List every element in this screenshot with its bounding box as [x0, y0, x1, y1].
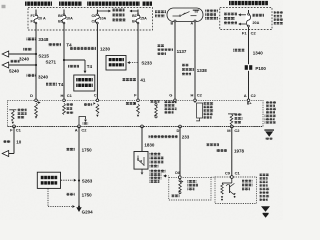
svg-text:5240: 5240 — [9, 68, 20, 73]
text inside right box — [224, 13, 237, 25]
svg-text:T4: T4 — [66, 43, 72, 48]
text right of right box — [274, 11, 283, 24]
wire from fuse C6 down to pin C — [96, 10, 98, 101]
switch blade detail — [173, 10, 200, 17]
svg-text:1338: 1338 — [197, 68, 208, 73]
svg-text:3240: 3240 — [38, 75, 49, 80]
wire 233 — [179, 127, 181, 178]
resistor box below H C2 — [195, 102, 203, 121]
svg-text:D: D — [30, 93, 33, 98]
left continuation arrow — [163, 174, 169, 177]
pin D8 — [175, 171, 181, 179]
svg-text:1830: 1830 — [144, 143, 155, 148]
transistor Q1 — [221, 183, 236, 200]
svg-text:C2: C2 — [251, 93, 257, 98]
wire from roof fuse down to pin A C2 — [248, 10, 250, 100]
svg-text:1340: 1340 — [253, 50, 264, 55]
svg-text:B+: B+ — [247, 102, 252, 106]
scan speck top-left — [2, 5, 6, 8]
arrow to left text upper — [238, 13, 246, 16]
dimmer element below D — [35, 101, 41, 118]
wire 1750 — [78, 126, 80, 207]
pin label C9 C1 — [225, 171, 241, 176]
fuse B1 labels — [132, 14, 147, 23]
upper arrow labels — [19, 48, 32, 62]
arrow to left text lower — [238, 23, 246, 26]
svg-text:D: D — [177, 128, 180, 133]
top-right distribution box outline — [220, 8, 272, 30]
wire 233 label — [149, 135, 190, 140]
wire 1978 label — [206, 143, 245, 153]
svg-text:1750: 1750 — [82, 147, 93, 152]
junction of lower arrow — [35, 64, 37, 66]
ground G204 — [76, 207, 93, 214]
dashed link to splice S233 — [127, 61, 152, 66]
pin M C2 bottom — [227, 125, 240, 133]
pin C top — [94, 93, 99, 102]
arrow below switch box — [141, 169, 144, 175]
pin F C1 bottom — [10, 125, 22, 132]
svg-text:20 A: 20 A — [38, 17, 46, 21]
wire 3348 label — [27, 37, 49, 42]
svg-text:C1: C1 — [235, 171, 241, 176]
pin H C1 top — [61, 93, 73, 102]
text block sensor signal — [204, 102, 214, 119]
label: small title — [142, 2, 152, 6]
dashed link box to ground — [48, 188, 75, 208]
svg-text:S233: S233 — [141, 61, 152, 66]
svg-text:G204: G204 — [82, 209, 94, 214]
label: engine fuse block title — [25, 2, 52, 6]
pin F top — [134, 93, 139, 102]
junction C9 C1 — [230, 176, 233, 179]
sensor element in bottom box — [179, 180, 184, 194]
wire 1750 upper label — [66, 147, 92, 152]
svg-text:C2: C2 — [234, 128, 240, 133]
wire 41 label — [122, 78, 146, 83]
ground triangle bottom right — [261, 206, 270, 218]
svg-text:B6: B6 — [58, 14, 63, 18]
wire 1830 label — [144, 143, 155, 148]
svg-text:S271: S271 — [45, 60, 56, 65]
switch pin B — [171, 20, 176, 25]
wire T4 upper label — [48, 43, 72, 48]
pin label A C2 right — [244, 93, 257, 98]
text bottom box lower — [171, 194, 180, 197]
lamp element far left — [9, 110, 16, 124]
fuse C6 labels — [91, 14, 106, 23]
element below F — [125, 102, 139, 117]
arrow from fuse C6 to junction text — [97, 10, 111, 13]
junction box T4 (solid) — [74, 75, 95, 91]
loop at pin A C2 bottom — [79, 117, 88, 126]
text for element M — [234, 113, 242, 123]
diode element — [221, 183, 223, 198]
dash continuation between bottom boxes — [211, 176, 215, 178]
wire from fuse F1 down to pin D — [35, 10, 37, 101]
svg-text:41: 41 — [140, 78, 146, 83]
label: instrument fuse block title — [59, 2, 82, 6]
wire 10 label — [3, 140, 22, 145]
svg-text:F1: F1 — [30, 14, 34, 18]
text left of switch — [155, 10, 166, 17]
fuse F1 20A — [33, 14, 39, 24]
off-page arrow bottom left — [2, 151, 9, 157]
svg-text:H: H — [191, 92, 194, 97]
svg-text:P100: P100 — [255, 66, 266, 71]
svg-text:A: A — [191, 21, 194, 25]
svg-text:T4: T4 — [87, 64, 93, 69]
wire into transistors — [222, 178, 232, 183]
theft deterrent switch box — [134, 152, 148, 170]
text for lamp element — [18, 109, 27, 119]
svg-text:C1: C1 — [16, 127, 22, 132]
fuse F1 labels — [30, 14, 46, 23]
branch labels — [68, 64, 93, 69]
svg-text:F1: F1 — [242, 31, 247, 36]
fuse B6 labels — [58, 14, 73, 23]
text in bottom right box — [242, 180, 253, 191]
fuse C6 10A — [94, 14, 100, 24]
roof fuse labels — [253, 14, 265, 25]
svg-text:B1: B1 — [132, 14, 137, 18]
roof fuse 30A — [246, 13, 252, 27]
text in bottom box — [187, 180, 198, 190]
junction block text in fuse box — [113, 9, 126, 22]
fuse B1 15A — [135, 14, 141, 24]
svg-text:C8: C8 — [91, 20, 96, 24]
wire 1340 label — [233, 49, 263, 56]
ground distribution box (solid) — [37, 172, 60, 188]
wire 1978 — [231, 127, 233, 178]
label: right distribution box title — [229, 1, 268, 5]
svg-text:G: G — [169, 93, 172, 98]
bottom module box left — [169, 177, 211, 200]
element below C — [84, 102, 99, 117]
text right of switch — [205, 9, 218, 19]
module box (dashed) — [7, 100, 263, 126]
pin D bottom — [177, 125, 182, 133]
fuse block outline — [28, 8, 153, 30]
svg-text:C2: C2 — [197, 92, 203, 97]
bottom module box right — [215, 177, 257, 204]
svg-text:A: A — [75, 128, 78, 133]
wire 1137 from pin B to pin G — [174, 22, 176, 100]
pin label F1 C2 — [242, 31, 257, 36]
pin at wire 1830 — [141, 125, 144, 128]
text right of switch box — [149, 153, 163, 168]
svg-text:T4: T4 — [58, 82, 64, 87]
wire 1230 label — [70, 47, 111, 52]
switch pin A — [191, 20, 196, 25]
svg-text:233: 233 — [182, 135, 190, 140]
pin D top — [30, 93, 37, 102]
element below H C1 — [63, 103, 74, 114]
element below M C2 — [228, 114, 235, 126]
label: roof rail fuse block title — [87, 2, 140, 6]
wire 1338 color label — [182, 64, 207, 75]
lower arrow labels — [9, 60, 20, 74]
text right of bottom right box — [260, 174, 270, 201]
svg-text:10: 10 — [16, 140, 22, 145]
wire 1338 from pin A to pin H C2 — [194, 22, 196, 100]
splice S271 — [45, 59, 65, 65]
dashed link box to S263 — [61, 179, 76, 182]
svg-text:C1: C1 — [67, 93, 73, 98]
wire 1830 — [141, 126, 143, 151]
splice S263 — [78, 179, 93, 184]
text block sensor input — [165, 101, 177, 114]
module box bottom boundary emphasis — [7, 126, 263, 128]
text right of module box lower — [265, 115, 276, 124]
text right of module box upper — [266, 101, 276, 113]
svg-text:10A: 10A — [66, 17, 73, 21]
splice S215 — [35, 53, 50, 59]
ground triangle G200 — [264, 129, 274, 139]
wire T4 lower label — [46, 82, 64, 87]
svg-text:1230: 1230 — [100, 47, 111, 52]
svg-text:20A: 20A — [253, 21, 260, 25]
svg-text:10A: 10A — [99, 17, 106, 21]
fuse B6 10A — [61, 14, 67, 24]
svg-text:S263: S263 — [82, 179, 93, 184]
svg-text:B: B — [171, 21, 174, 25]
wire 1750 lower label — [66, 192, 92, 197]
text lower right of switch box — [149, 170, 165, 183]
svg-text:15A: 15A — [140, 17, 147, 21]
svg-text:1137: 1137 — [177, 49, 187, 54]
arrow from fuse B1 to junction text — [129, 10, 138, 13]
pin G top — [169, 93, 176, 102]
svg-text:C2: C2 — [81, 128, 87, 133]
branch to junction box T4 — [64, 60, 86, 73]
svg-text:F3: F3 — [30, 20, 34, 24]
svg-text:C2: C2 — [251, 31, 257, 36]
pin H C2 top — [191, 92, 203, 101]
junction box 2 (solid) — [106, 56, 126, 71]
svg-text:C6: C6 — [91, 14, 96, 18]
svg-text:C: C — [94, 93, 97, 98]
junction at ground link — [78, 206, 80, 208]
svg-text:A: A — [244, 93, 247, 98]
off-page arrow 5240 lower — [2, 62, 35, 68]
wire from fuse B1 down to pin F — [137, 10, 139, 101]
svg-text:C9: C9 — [225, 171, 231, 176]
inline connector P100 — [245, 64, 267, 71]
svg-text:S215: S215 — [38, 53, 49, 58]
svg-text:1750: 1750 — [82, 192, 93, 197]
wire 1137 color label — [157, 44, 187, 55]
svg-text:1978: 1978 — [234, 148, 245, 153]
pin A C2 top-right — [247, 99, 252, 106]
off-page arrow 3240 upper — [2, 51, 35, 57]
svg-text:H: H — [61, 93, 64, 98]
pin A C2 bottom — [75, 125, 88, 133]
coil element — [150, 100, 159, 118]
dome lamp switch outline — [167, 8, 203, 22]
wire 3240 label — [27, 74, 49, 80]
wire from fuse B6 down to pin H C1 — [63, 10, 65, 101]
svg-text:3348: 3348 — [38, 37, 49, 42]
svg-text:B5: B5 — [58, 20, 63, 24]
wire 10 from pin F C1 — [9, 126, 14, 153]
svg-text:D8: D8 — [175, 171, 180, 175]
svg-text:3240: 3240 — [19, 56, 30, 61]
